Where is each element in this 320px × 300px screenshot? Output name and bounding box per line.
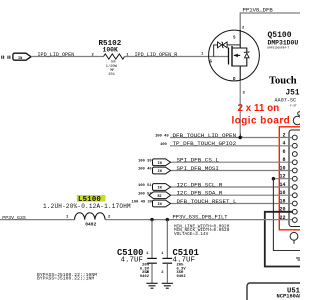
- svg-text:I2C_DFB_SCL_R: I2C_DFB_SCL_R: [177, 181, 223, 188]
- svg-text:IN: IN: [158, 187, 162, 191]
- body diode rail: [240, 48, 247, 52]
- body stub: [234, 54, 240, 56]
- svg-text:VOLTAGE=3.14V: VOLTAGE=3.14V: [174, 232, 209, 237]
- row numbers: [132, 135, 170, 205]
- svg-text:0402: 0402: [177, 275, 187, 279]
- connector J5100 red box: [279, 127, 303, 230]
- row wires: [170, 138, 292, 204]
- svg-text:IN: IN: [158, 162, 162, 166]
- body arrow: [234, 54, 238, 58]
- svg-text:BI: BI: [158, 195, 162, 199]
- tag IN DFB_TOUCH_RESET_L: [153, 200, 171, 207]
- wire PP1V8_DFB: [240, 12, 300, 30]
- svg-text:1: 1: [66, 216, 69, 220]
- row tags: [149, 159, 171, 207]
- source stub: [232, 30, 240, 48]
- svg-text:Touch: Touch: [269, 76, 297, 87]
- svg-text:2: 2: [161, 271, 164, 275]
- pin 2 circle: [292, 135, 297, 140]
- svg-text:SPI_DFB_CS_L: SPI_DFB_CS_L: [177, 157, 220, 164]
- svg-text:6: 6: [282, 149, 285, 155]
- capacitor C5101: [163, 220, 173, 283]
- wire Q5100 drain down: [239, 81, 241, 138]
- svg-text:100 51: 100 51: [138, 184, 152, 188]
- svg-text:I2C_DFB_SDA_R: I2C_DFB_SDA_R: [177, 190, 223, 197]
- connector top circle: [293, 116, 301, 124]
- wire pin20 down and right: [265, 212, 300, 267]
- svg-text:4.7UF: 4.7UF: [121, 256, 144, 264]
- edge marks top-left: [1, 56, 10, 59]
- pin 20 circle: [292, 209, 297, 214]
- svg-text:PP3V_G3S_DFB_FILT: PP3V_G3S_DFB_FILT: [173, 214, 229, 220]
- tag IN I2C_DFB_SCL_R: [153, 184, 171, 191]
- svg-text:TP_DFB_TOUCH_GPIO2: TP_DFB_TOUCH_GPIO2: [173, 140, 237, 147]
- svg-text:1: 1: [161, 252, 164, 256]
- row net labels: [173, 132, 244, 205]
- wire SPI_DFB_CS_L: [171, 161, 293, 163]
- svg-text:2 x 11 on: 2 x 11 on: [238, 103, 280, 114]
- svg-text:BYPASS=J5100.22;;1NM: BYPASS=J5100.22;;1NM: [37, 276, 94, 282]
- svg-text:IPD_LID_OPEN: IPD_LID_OPEN: [38, 52, 75, 58]
- wire DFB_TOUCH_RESET_L: [171, 203, 293, 205]
- pin 22 circle: [292, 218, 297, 223]
- wire pin12 down and right: [273, 179, 300, 251]
- svg-text:201: 201: [108, 73, 115, 77]
- svg-text:100K: 100K: [103, 46, 119, 53]
- wire PP3V_G3S: [0, 219, 75, 221]
- svg-text:G: G: [210, 61, 213, 65]
- svg-text:logic board: logic board: [232, 115, 291, 126]
- pin 14 circle: [292, 185, 297, 190]
- junction dot C5101: [166, 218, 169, 221]
- svg-text:1.2UH-20%-0.12A-1.17OHM: 1.2UH-20%-0.12A-1.17OHM: [43, 203, 131, 210]
- svg-text:100 49: 100 49: [155, 135, 169, 139]
- svg-text:DFB_TOUCH_LID_OPEN_L: DFB_TOUCH_LID_OPEN_L: [173, 132, 244, 139]
- zener gate-source: [214, 42, 241, 57]
- ground C5101: [162, 283, 173, 288]
- junction dot drain/row1: [239, 136, 242, 139]
- body diode: [245, 53, 250, 58]
- svg-text:J510: J510: [286, 89, 301, 97]
- svg-text:IPD_LID_OPEN_R: IPD_LID_OPEN_R: [135, 52, 178, 58]
- gate bar: [228, 48, 230, 65]
- junction dot C5100: [150, 218, 153, 221]
- wire DFB_TOUCH_LID_OPEN_L: [170, 137, 292, 139]
- svg-text:2: 2: [108, 216, 111, 220]
- wire IPD_LID_OPEN_R: [125, 56, 229, 58]
- svg-text:IN: IN: [158, 170, 162, 174]
- U5100 box: [247, 283, 300, 300]
- pin 6 circle: [292, 152, 297, 157]
- svg-text:F-ST: F-ST: [290, 105, 297, 108]
- connector body: [289, 130, 303, 227]
- svg-text:DFB_TOUCH_RESET_L: DFB_TOUCH_RESET_L: [177, 198, 238, 205]
- svg-text:D: D: [233, 78, 236, 82]
- inductor L5100 highlight: [77, 195, 106, 202]
- svg-text:3: 3: [243, 92, 246, 96]
- pin 12 circle: [292, 176, 297, 181]
- wire pin12 stub: [273, 178, 292, 180]
- pin 16 circle: [292, 193, 297, 198]
- svg-text:IN: IN: [158, 203, 162, 207]
- wire SPI_DFB_MOSI: [171, 170, 293, 172]
- svg-text:0402: 0402: [85, 221, 96, 227]
- svg-text:2: 2: [242, 26, 245, 30]
- svg-text:S: S: [233, 37, 236, 41]
- wire I2C_DFB_SDA_R: [171, 194, 293, 196]
- svg-text:DMP31D0U: DMP31D0U: [268, 39, 299, 46]
- wire PP3V_G3S_DFB_FILT: [105, 219, 292, 221]
- svg-text:1: 1: [146, 252, 149, 256]
- tag IN SPI_DFB_MOSI: [153, 167, 171, 174]
- svg-text:NCP160AB: NCP160AB: [277, 293, 301, 299]
- svg-text:100 39: 100 39: [138, 159, 152, 163]
- min width note: [174, 224, 230, 237]
- ground C5100: [146, 283, 157, 288]
- resistor R5102: [104, 54, 125, 59]
- svg-text:PP1V8_DFB: PP1V8_DFB: [243, 7, 274, 14]
- transistor Q5100: [201, 26, 259, 95]
- capacitor C5100: [147, 220, 157, 283]
- svg-text:IN: IN: [18, 57, 22, 61]
- drain stub: [232, 66, 240, 81]
- svg-text:SPI_DFB_MOSI: SPI_DFB_MOSI: [177, 165, 219, 172]
- tag BI I2C_DFB_SDA_R: [149, 192, 171, 199]
- tag IN (IPD_LID_OPEN): [13, 53, 31, 61]
- tag IN SPI_DFB_CS_L: [153, 159, 171, 166]
- pin 4 circle: [292, 143, 297, 148]
- pin circles and numbers: [279, 132, 297, 222]
- pin 10 circle: [292, 168, 297, 173]
- svg-text:PP3V_G3S: PP3V_G3S: [2, 215, 26, 221]
- svg-text:DMP31D0UFB4-7: DMP31D0UFB4-7: [268, 46, 290, 49]
- svg-text:100: 100: [160, 143, 168, 147]
- wire I2C_DFB_SCL_R: [171, 186, 293, 188]
- pin 18 circle: [292, 201, 297, 206]
- wire IPD_LID_OPEN: [31, 56, 104, 58]
- svg-text:0402: 0402: [140, 275, 150, 279]
- svg-text:100 46: 100 46: [138, 168, 152, 172]
- svg-text:100 49 39: 100 49 39: [132, 201, 153, 205]
- channel bar: [231, 46, 233, 67]
- connector bottom circle: [290, 232, 298, 240]
- junction dot pin12: [272, 177, 275, 180]
- pin 8 circle: [292, 160, 297, 165]
- wire TP_DFB_TOUCH_GPIO2: [170, 145, 292, 147]
- ground right edge: [296, 258, 300, 260]
